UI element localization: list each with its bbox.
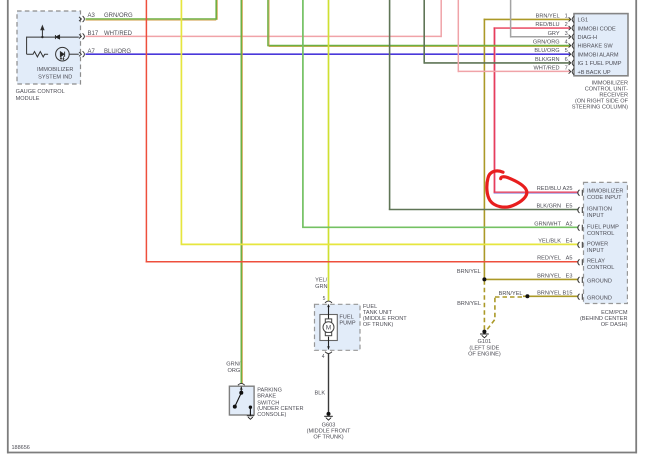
ground G603 xyxy=(324,412,333,420)
indicator circuit top wire xyxy=(27,36,56,38)
label immobilizer control unit-receiver caption xyxy=(572,81,629,111)
wire BLK/GRN vertical to E5 xyxy=(389,0,391,210)
wire GRN/ORG pin 4 vertical to top xyxy=(267,0,269,46)
wire BRN/YEL pin 1 horizontal xyxy=(484,18,571,20)
svg-text:BRN/YEL: BRN/YEL xyxy=(537,290,561,296)
indicator circuit left wire xyxy=(26,37,28,55)
wire BRN/YEL dashed vertical to ground xyxy=(483,280,485,330)
ground G101 xyxy=(480,330,489,338)
wire RED/YEL horizontal to A5 xyxy=(146,261,579,263)
svg-text:4: 4 xyxy=(565,40,568,46)
junction dot BRN/YEL B15 xyxy=(525,294,529,298)
svg-text:A5: A5 xyxy=(566,256,573,262)
label GRN/ORG parking brake xyxy=(226,362,240,374)
ground parking brake xyxy=(247,416,254,420)
pin 7 connector xyxy=(569,69,574,75)
svg-text:WHT/RED: WHT/RED xyxy=(533,66,559,72)
label POWER INPUT xyxy=(587,241,608,254)
svg-text:B17: B17 xyxy=(88,31,99,37)
svg-text:GAUGE CONTROL: GAUGE CONTROL xyxy=(16,89,65,95)
svg-text:IMMOBILIZER: IMMOBILIZER xyxy=(37,67,73,73)
switch feed wire xyxy=(240,387,242,393)
svg-text:A2: A2 xyxy=(566,221,573,227)
label ECM/PCM caption xyxy=(580,310,628,328)
wire WHT/RED pin 7 horizontal xyxy=(458,70,570,72)
pin 2 connector xyxy=(569,25,574,31)
svg-text:A25: A25 xyxy=(563,186,573,192)
wire GRN/ORG vertical to top xyxy=(215,0,217,20)
svg-text:CONTROL: CONTROL xyxy=(587,265,614,271)
immobilizer control unit-receiver box U2 xyxy=(574,14,628,76)
wire GRY vertical to top xyxy=(510,0,512,38)
node B17 connector xyxy=(79,33,84,39)
resistor R1 xyxy=(27,52,49,57)
fuel tank bottom connector pin 4 xyxy=(325,352,332,354)
wire YEL/BLK vertical xyxy=(180,0,182,245)
svg-text:OF TRUNK): OF TRUNK) xyxy=(313,434,343,440)
svg-text:E3: E3 xyxy=(566,273,573,279)
wire BRN/YEL dashed horizontal xyxy=(495,296,524,298)
pin 1 connector xyxy=(569,16,574,22)
svg-text:WHT/RED: WHT/RED xyxy=(104,31,133,37)
node A7 connector xyxy=(79,51,84,57)
svg-text:IG 1 FUEL PUMP: IG 1 FUEL PUMP xyxy=(578,61,622,67)
svg-text:E4: E4 xyxy=(566,238,573,244)
svg-text:GRN/WHT: GRN/WHT xyxy=(534,221,561,227)
svg-text:BRN/YEL: BRN/YEL xyxy=(499,291,523,297)
svg-text:CONTROL: CONTROL xyxy=(587,231,614,237)
svg-text:IMMOBILIZER: IMMOBILIZER xyxy=(587,189,623,195)
label PARKING BRAKE SWITCH caption xyxy=(257,388,303,418)
label IMMOBILIZER CODE INPUT xyxy=(587,189,623,202)
wire GRN/ORG parking stripe xyxy=(241,0,243,384)
pin E5 connector xyxy=(578,207,583,213)
pin 6 connector xyxy=(569,60,574,66)
indicator circuit wire top arrow xyxy=(41,26,44,37)
svg-text:INPUT: INPUT xyxy=(587,213,604,219)
switch ground contact xyxy=(249,406,252,416)
wire GRN/ORG vertical to parking brake switch xyxy=(240,0,242,384)
svg-text:YEL/BLK: YEL/BLK xyxy=(538,238,561,244)
parking brake connector xyxy=(238,383,245,385)
label FUEL PUMP xyxy=(339,314,355,326)
fuel tank unit box xyxy=(315,304,361,350)
svg-text:GRN: GRN xyxy=(315,284,327,290)
svg-text:FUEL PUMP: FUEL PUMP xyxy=(587,224,619,230)
svg-text:A7: A7 xyxy=(88,49,96,55)
svg-text:DIAG-H: DIAG-H xyxy=(578,35,598,41)
svg-text:G101: G101 xyxy=(478,339,492,345)
switch arm SW1 xyxy=(233,391,243,408)
pin A2 connector xyxy=(578,225,583,231)
svg-text:INPUT: INPUT xyxy=(587,248,604,254)
svg-text:IGNITION: IGNITION xyxy=(587,207,612,213)
svg-text:CODE INPUT: CODE INPUT xyxy=(587,195,622,201)
pin E3 connector xyxy=(578,277,583,283)
svg-text:RED/YEL: RED/YEL xyxy=(537,256,561,262)
svg-text:BLU/ORG: BLU/ORG xyxy=(104,49,131,55)
wire RED/BLU vertical xyxy=(493,27,495,193)
svg-text:BRAKE: BRAKE xyxy=(257,394,276,400)
svg-text:BRN/YEL: BRN/YEL xyxy=(457,301,481,307)
wire WHT/RED from B17 horizontal xyxy=(86,35,442,37)
wire GRN/ORG pin 4 horizontal xyxy=(268,45,571,47)
fuel pump motor M1 xyxy=(323,322,334,333)
wire YEL/GRN vertical to fuel tank xyxy=(328,0,330,301)
wire WHT/RED vertical to top xyxy=(440,0,442,37)
svg-text:1: 1 xyxy=(565,13,568,19)
svg-text:PUMP: PUMP xyxy=(339,320,355,326)
svg-text:POWER: POWER xyxy=(587,241,608,247)
svg-text:MODULE: MODULE xyxy=(16,96,40,102)
svg-text:BLK/GRN: BLK/GRN xyxy=(536,204,561,210)
arrow up fuel feed xyxy=(327,304,330,307)
switch feed arrow xyxy=(240,387,243,390)
label RELAY CONTROL xyxy=(587,259,614,272)
frame right border xyxy=(635,0,637,453)
svg-text:ORG: ORG xyxy=(228,368,241,374)
svg-text:OF TRUNK): OF TRUNK) xyxy=(363,322,393,328)
svg-text:IMMOBI ALARM: IMMOBI ALARM xyxy=(578,52,619,58)
svg-text:B15: B15 xyxy=(563,290,573,296)
wire GRN/WHT horizontal to A2 xyxy=(302,226,578,228)
svg-text:BRN/YEL: BRN/YEL xyxy=(537,273,561,279)
svg-text:GROUND: GROUND xyxy=(587,295,612,301)
fuel pump inner box xyxy=(320,315,337,341)
wire GRN/ORG from A3 horizontal xyxy=(86,18,217,20)
svg-text:STEERING COLUMN): STEERING COLUMN) xyxy=(572,105,628,111)
wire RED/BLU horizontal to A25 xyxy=(494,191,579,193)
wire WHT/RED pin 7 vertical to top xyxy=(457,0,459,72)
wire BLK/GRN pin 6 vertical to top xyxy=(423,0,425,64)
svg-text:+B BACK UP: +B BACK UP xyxy=(578,70,611,76)
svg-text:2: 2 xyxy=(565,22,568,28)
wire RED/YEL vertical xyxy=(145,0,147,263)
svg-text:SYSTEM IND: SYSTEM IND xyxy=(38,74,72,80)
svg-text:BRN/YEL: BRN/YEL xyxy=(457,269,481,275)
gauge control module box xyxy=(17,11,81,84)
fuel pump return wire xyxy=(328,337,330,350)
wire RED/BLU blue stripe vertical xyxy=(494,29,496,192)
svg-text:BLU/ORG: BLU/ORG xyxy=(534,48,559,54)
frame left border xyxy=(7,0,9,453)
wire BRN/YEL dashed diagonal xyxy=(487,320,495,330)
junction dot BRN/YEL E3 xyxy=(482,277,486,281)
label FUEL TANK UNIT caption xyxy=(363,304,407,328)
label GAUGE CONTROL MODULE xyxy=(16,89,65,102)
arrow down fuel return xyxy=(327,346,330,349)
svg-text:RED/BLU: RED/BLU xyxy=(537,186,561,192)
svg-text:188656: 188656 xyxy=(12,445,30,451)
svg-text:OF DASH): OF DASH) xyxy=(601,322,628,328)
fuel pump brush top xyxy=(325,319,331,322)
label YEL/GRN xyxy=(315,278,328,290)
wire BRN/YEL solid horizontal to B15 xyxy=(523,295,579,297)
wire GRN/ORG pin 4 stripe xyxy=(268,0,270,46)
svg-text:6: 6 xyxy=(565,57,568,63)
wire GRN/ORG orange stripe xyxy=(86,19,217,21)
wire YEL/BLK horizontal to E4 xyxy=(181,243,579,245)
pin 5 connector xyxy=(569,51,574,57)
svg-text:RED/BLU: RED/BLU xyxy=(535,22,559,28)
junction dot indicator xyxy=(41,36,43,38)
pin E4 connector xyxy=(578,242,583,248)
label IMMOBILIZER SYSTEM IND xyxy=(37,67,73,80)
wire BRN/YEL horizontal to E3 xyxy=(484,278,578,280)
pin 4 connector xyxy=(569,42,574,48)
svg-text:LG1: LG1 xyxy=(578,18,589,24)
annotation red circle xyxy=(487,171,527,207)
pin 3 connector xyxy=(569,34,574,40)
svg-text:5: 5 xyxy=(323,296,326,302)
wire BLU/ORG from A7 to pin 5 xyxy=(86,53,571,55)
svg-text:BRN/YEL: BRN/YEL xyxy=(536,13,560,19)
svg-text:4: 4 xyxy=(322,354,325,360)
wire BRN/YEL dashed vertical short xyxy=(494,298,496,320)
wire RED/BLU pin 2 horizontal xyxy=(494,27,571,29)
pin B15 connector xyxy=(578,294,583,300)
svg-text:GRN/ORG: GRN/ORG xyxy=(104,13,133,19)
pin A25 connector xyxy=(578,190,583,196)
frame bottom border xyxy=(7,452,637,454)
svg-text:RELAY: RELAY xyxy=(587,259,605,265)
svg-text:GRN/: GRN/ xyxy=(226,362,240,368)
svg-text:M: M xyxy=(326,325,332,332)
fuel pump brush bottom xyxy=(325,332,331,335)
svg-text:GROUND: GROUND xyxy=(587,278,612,284)
node A3 connector xyxy=(79,16,84,22)
svg-text:CONSOLE): CONSOLE) xyxy=(257,412,286,418)
wire GRN/WHT vertical xyxy=(302,0,304,227)
svg-text:A3: A3 xyxy=(88,13,96,19)
svg-text:OF ENGINE): OF ENGINE) xyxy=(468,351,501,357)
svg-text:HIBRAKE SW: HIBRAKE SW xyxy=(578,44,614,50)
wire RED/BLU blue stripe horizontal xyxy=(494,192,579,194)
label IGNITION INPUT xyxy=(587,207,612,220)
parking brake switch box SW1 xyxy=(229,386,254,415)
wire BLK/GRN pin 6 horizontal xyxy=(424,62,570,64)
svg-text:GRY: GRY xyxy=(548,31,560,37)
diode D1 xyxy=(55,35,59,39)
svg-text:YEL/: YEL/ xyxy=(315,278,328,284)
fuel pump feed wire in box xyxy=(328,305,330,319)
svg-text:BLK: BLK xyxy=(315,390,326,396)
wire BLK to G603 xyxy=(328,354,330,413)
svg-text:3: 3 xyxy=(565,31,568,37)
label FUEL PUMP CONTROL xyxy=(587,224,619,237)
svg-text:E5: E5 xyxy=(566,204,573,210)
ECM/PCM box xyxy=(584,182,628,303)
wire GRN/ORG pin 4 horizontal stripe xyxy=(269,46,571,48)
indicator wire LED to A7 xyxy=(69,53,79,55)
wire GRN/ORG vertical stripe xyxy=(216,0,218,20)
svg-text:BLK/GRN: BLK/GRN xyxy=(535,57,560,63)
pin A5 connector xyxy=(578,259,583,265)
svg-text:7: 7 xyxy=(565,66,568,72)
indicator wire diode to B17 xyxy=(60,36,79,38)
svg-text:GRN/ORG: GRN/ORG xyxy=(533,40,560,46)
svg-text:IMMOBI CODE: IMMOBI CODE xyxy=(578,26,616,32)
fuel tank top connector pin 5 xyxy=(325,301,332,303)
wire BLK/GRN horizontal to E5 xyxy=(389,209,579,211)
svg-text:5: 5 xyxy=(565,48,568,54)
wire BRN/YEL vertical xyxy=(483,19,485,280)
LED indicator lamp xyxy=(56,47,70,61)
wire GRY pin 3 horizontal xyxy=(511,36,571,38)
